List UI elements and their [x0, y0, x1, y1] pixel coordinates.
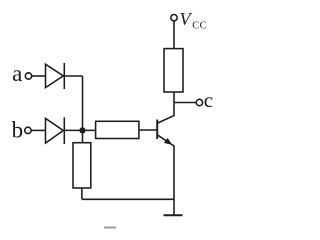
- svg-text:c: c: [204, 88, 213, 112]
- svg-text:V: V: [180, 9, 193, 29]
- svg-text:a: a: [12, 61, 22, 86]
- svg-text:CC: CC: [192, 20, 207, 31]
- svg-text:b: b: [12, 117, 24, 142]
